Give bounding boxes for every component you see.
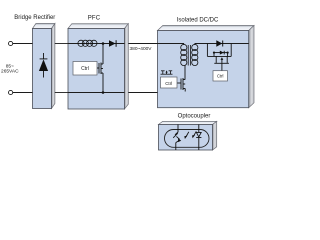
svg-text:Optocoupler: Optocoupler [178,113,211,119]
svg-text:Ctrl: Ctrl [217,74,224,79]
svg-text:85~: 85~ [6,64,14,70]
svg-text:265VAC: 265VAC [1,69,19,75]
svg-text:PFC: PFC [88,16,101,22]
svg-text:Ctrl: Ctrl [165,81,172,86]
svg-text:380~400V: 380~400V [129,46,152,52]
svg-text:Ctrl: Ctrl [81,66,89,72]
svg-text:Isolated DC/DC: Isolated DC/DC [177,18,219,24]
svg-text:Bridge Rectifier: Bridge Rectifier [14,15,55,21]
